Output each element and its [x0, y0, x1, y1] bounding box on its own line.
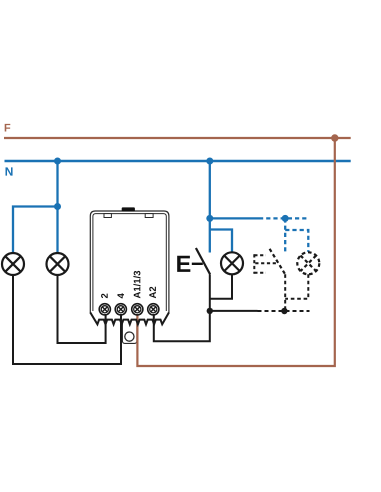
lamp E2 dashed	[297, 252, 319, 274]
wire dashed lamp E2 bottom jog	[285, 274, 308, 299]
node dashed return junction	[281, 308, 287, 314]
wire lamp L1 to terminal 4	[13, 275, 121, 364]
wire dashed black return extension	[258, 310, 310, 312]
lamp L1	[2, 253, 24, 275]
wire solid black return toward extension	[210, 310, 258, 312]
terminal label 4	[117, 293, 124, 298]
wire E switch to return junction	[209, 274, 211, 311]
lamp in pushbutton E	[221, 252, 243, 274]
net N label	[6, 167, 13, 175]
wire N down to lamp branch	[56, 161, 58, 207]
pushbutton E actuator link	[192, 263, 203, 265]
node junction N to pushbutton E	[206, 158, 213, 165]
wire branch to lamp L1	[13, 207, 58, 254]
relay U1 top mounting tab	[122, 207, 135, 211]
terminal label A1/1/3	[133, 271, 140, 298]
wire E switch feed	[209, 218, 211, 252]
wire dashed blue E2 switch feed	[284, 218, 286, 252]
wire lamp E bottom jog	[210, 274, 232, 298]
wire F phase bus	[4, 137, 351, 139]
wire N down to E junction	[209, 161, 211, 218]
wire terminal A2 to pushbutton return	[154, 311, 210, 341]
relay U1 DIN clip	[122, 324, 136, 344]
wire branch to lamp L2	[56, 207, 58, 254]
wire solid blue toward extension	[210, 217, 259, 219]
node lamp branch junction	[54, 203, 61, 210]
pushbutton E label	[177, 256, 190, 272]
wire lamp L2 to terminal 2	[58, 275, 106, 343]
wire dashed blue E2 lamp branch	[285, 230, 308, 252]
wire terminal A1/1/3 to F (brown)	[137, 138, 334, 366]
wire dashed E2 switch to return	[284, 274, 286, 311]
wire E lamp feed branch	[210, 230, 232, 253]
terminal label 2	[101, 294, 108, 299]
terminal label A2	[149, 287, 156, 299]
relay U1 top notch left	[104, 214, 111, 218]
terminal screw 2	[99, 304, 110, 315]
pushbutton E2 dashed switch lever	[270, 249, 286, 274]
node junction N to lamps	[54, 158, 61, 165]
lamp L2	[47, 253, 69, 275]
relay U1 bottom claw teeth	[90, 313, 169, 325]
terminal screw 4	[115, 304, 126, 315]
relay U1 top notch right	[145, 214, 153, 218]
pushbutton E switch lever	[196, 248, 210, 274]
pushbutton E2 dashed actuator icon	[254, 254, 278, 273]
relay U1 case outer outline	[90, 211, 169, 314]
wire N neutral bus	[5, 160, 351, 163]
terminal screw A1/1/3	[132, 304, 143, 315]
wire dashed blue extension	[259, 217, 308, 219]
net F label	[5, 124, 11, 132]
node E feed junction	[206, 215, 213, 222]
node junction on F bus	[331, 134, 338, 141]
node dashed circuit blue junction	[282, 215, 289, 222]
terminal screw A2	[148, 304, 159, 315]
relay U1 case inner outline	[93, 214, 166, 311]
node pushbutton return junction	[207, 308, 213, 314]
